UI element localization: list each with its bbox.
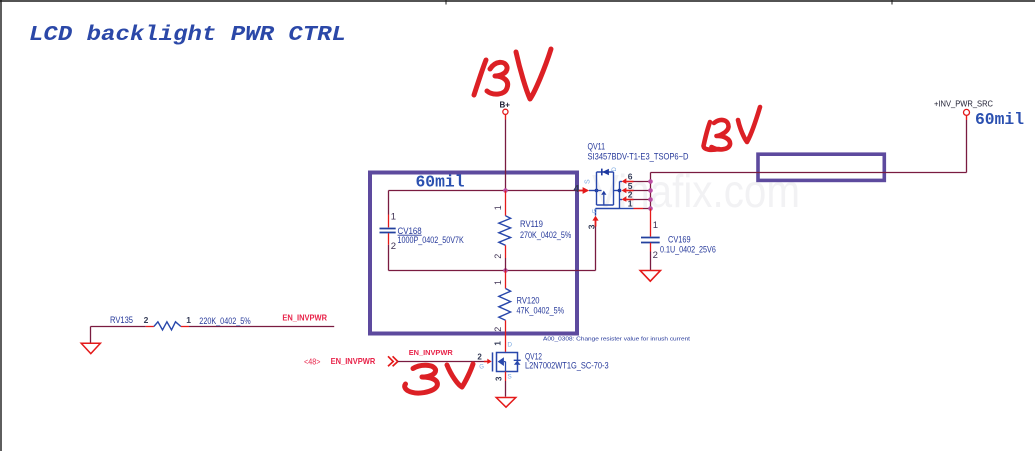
pin 5 arrow QV11 xyxy=(622,188,650,194)
wire CV168 upper vertical xyxy=(388,191,390,215)
svg-text:2: 2 xyxy=(493,254,503,259)
pin lead RV120 pin1 xyxy=(505,271,507,289)
transistor QV11 P-MOSFET xyxy=(596,169,620,216)
svg-text:QV11: QV11 xyxy=(588,142,606,152)
svg-text:60mil: 60mil xyxy=(975,110,1024,129)
resistor RV119 xyxy=(499,216,511,246)
pin 1 wire QV11 xyxy=(620,208,651,210)
wire top loop horizontal xyxy=(389,190,578,192)
svg-text:2: 2 xyxy=(391,241,396,252)
pin lead RV119 pin1 xyxy=(505,191,507,216)
wire +INV_PWR_SRC vertical xyxy=(966,120,968,173)
svg-text:0.1U_0402_25V6: 0.1U_0402_25V6 xyxy=(660,245,716,255)
sheet border top xyxy=(0,0,1035,2)
wire QV11 gate vertical xyxy=(595,227,597,271)
ground below RV135 xyxy=(81,343,100,353)
svg-text:1: 1 xyxy=(493,205,503,210)
wire bottom loop horizontal xyxy=(389,270,596,272)
svg-text:3: 3 xyxy=(494,376,503,381)
svg-text:<48>: <48> xyxy=(304,357,321,366)
sheet border left xyxy=(0,0,2,451)
gate arrow QV12 pin2 xyxy=(484,359,492,364)
junction node B+/RV119 xyxy=(503,188,508,193)
wire RV119 to node xyxy=(505,258,507,271)
chevron >> xyxy=(388,356,398,366)
svg-text:1000P_0402_50V7K: 1000P_0402_50V7K xyxy=(398,235,464,245)
svg-text:LCD backlight PWR CTRL: LCD backlight PWR CTRL xyxy=(29,24,346,47)
svg-text:+INV_PWR_SRC: +INV_PWR_SRC xyxy=(934,100,993,109)
svg-text:L2N7002WT1G_SC-70-3: L2N7002WT1G_SC-70-3 xyxy=(525,360,609,370)
svg-text:2: 2 xyxy=(493,327,503,332)
svg-text:1: 1 xyxy=(628,198,633,208)
pin lead CV169 pin1 xyxy=(650,209,652,237)
wire CV168 lower vertical xyxy=(388,245,390,271)
svg-text:A00_0308: Change resister valu: A00_0308: Change resister value for inru… xyxy=(543,337,690,343)
label CV168 xyxy=(398,226,422,236)
svg-text:2: 2 xyxy=(144,315,149,325)
wire QV12 source to ground xyxy=(505,381,507,397)
ground below CV169 xyxy=(640,271,660,282)
svg-text:270K_0402_5%: 270K_0402_5% xyxy=(520,230,571,240)
handwritten 13V (over B+) xyxy=(474,49,551,99)
svg-text:1: 1 xyxy=(494,341,503,346)
capacitor CV168 xyxy=(380,229,396,233)
svg-text:CV169: CV169 xyxy=(668,234,691,244)
svg-text:G: G xyxy=(592,209,598,214)
pin 2 arrow QV11 xyxy=(622,196,650,202)
svg-text:2: 2 xyxy=(653,250,658,261)
pin lead CV168 pin2 xyxy=(388,233,390,245)
svg-text:1: 1 xyxy=(653,220,658,231)
svg-text:SI3457BDV-T1-E3_TSOP6~D: SI3457BDV-T1-E3_TSOP6~D xyxy=(588,152,689,162)
ground below QV12 xyxy=(496,398,516,408)
pin 6 arrow QV11 xyxy=(622,178,650,184)
annotation box (top right) xyxy=(758,154,884,180)
gate arrow QV11 pin 3 xyxy=(592,216,598,227)
pin lead RV120 pin2 / QV12 drain wire xyxy=(505,320,507,352)
handwritten 13V (top right) xyxy=(704,107,761,150)
wire CV169 to ground xyxy=(650,252,652,271)
resistor RV120 xyxy=(499,289,511,321)
svg-text:G: G xyxy=(479,364,484,370)
handwritten 3V (bottom) xyxy=(405,364,473,393)
svg-text:1: 1 xyxy=(391,211,396,222)
svg-text:60mil: 60mil xyxy=(416,173,465,192)
wire RV135 left vertical xyxy=(90,327,92,343)
capacitor CV169 xyxy=(641,238,660,243)
annotation box 60mil (center) xyxy=(370,173,577,334)
wire B+ vertical xyxy=(505,115,507,120)
transistor QV12 N-MOSFET xyxy=(493,352,521,371)
junction dots on bus xyxy=(648,179,653,184)
wire QV12 gate xyxy=(398,361,484,363)
svg-text:S: S xyxy=(585,179,592,184)
svg-text:D: D xyxy=(507,342,512,349)
svg-text:RV135: RV135 xyxy=(110,315,133,325)
wire to +INV_PWR_SRC horizontal xyxy=(651,172,967,174)
svg-text:EN_INVPWR: EN_INVPWR xyxy=(331,356,376,366)
svg-text:47K_0402_5%: 47K_0402_5% xyxy=(517,306,565,316)
pin lead RV119 pin2 xyxy=(505,245,507,258)
svg-text:S: S xyxy=(507,373,512,380)
svg-text:RV119: RV119 xyxy=(520,219,543,229)
QV11 drain mini-bus blue xyxy=(614,182,623,209)
sheet zone tick 2 xyxy=(891,0,893,5)
pin lead QV12 source xyxy=(505,372,507,382)
junction node RV119/RV120 xyxy=(503,268,508,273)
svg-text:RV120: RV120 xyxy=(517,296,540,306)
sheet zone tick 1 xyxy=(445,0,447,5)
svg-text:220K_0402_5%: 220K_0402_5% xyxy=(199,316,250,326)
wire QV11 output bus vertical xyxy=(650,173,652,209)
svg-text:3: 3 xyxy=(586,224,596,229)
svg-text:B+: B+ xyxy=(500,101,511,110)
svg-text:1: 1 xyxy=(186,315,191,325)
resistor RV135 xyxy=(91,322,335,330)
pin lead CV169 pin2 xyxy=(650,243,652,252)
svg-text:1: 1 xyxy=(493,280,503,285)
svg-text:4: 4 xyxy=(574,183,580,195)
svg-text:EN_INVPWR: EN_INVPWR xyxy=(409,348,454,357)
svg-text:EN_INVPWR: EN_INVPWR xyxy=(282,312,327,322)
pin lead CV168 pin1 xyxy=(388,215,390,228)
svg-text:D: D xyxy=(612,167,618,172)
pin 4 arrow QV11 xyxy=(577,187,598,194)
svg-text:2: 2 xyxy=(477,353,482,362)
